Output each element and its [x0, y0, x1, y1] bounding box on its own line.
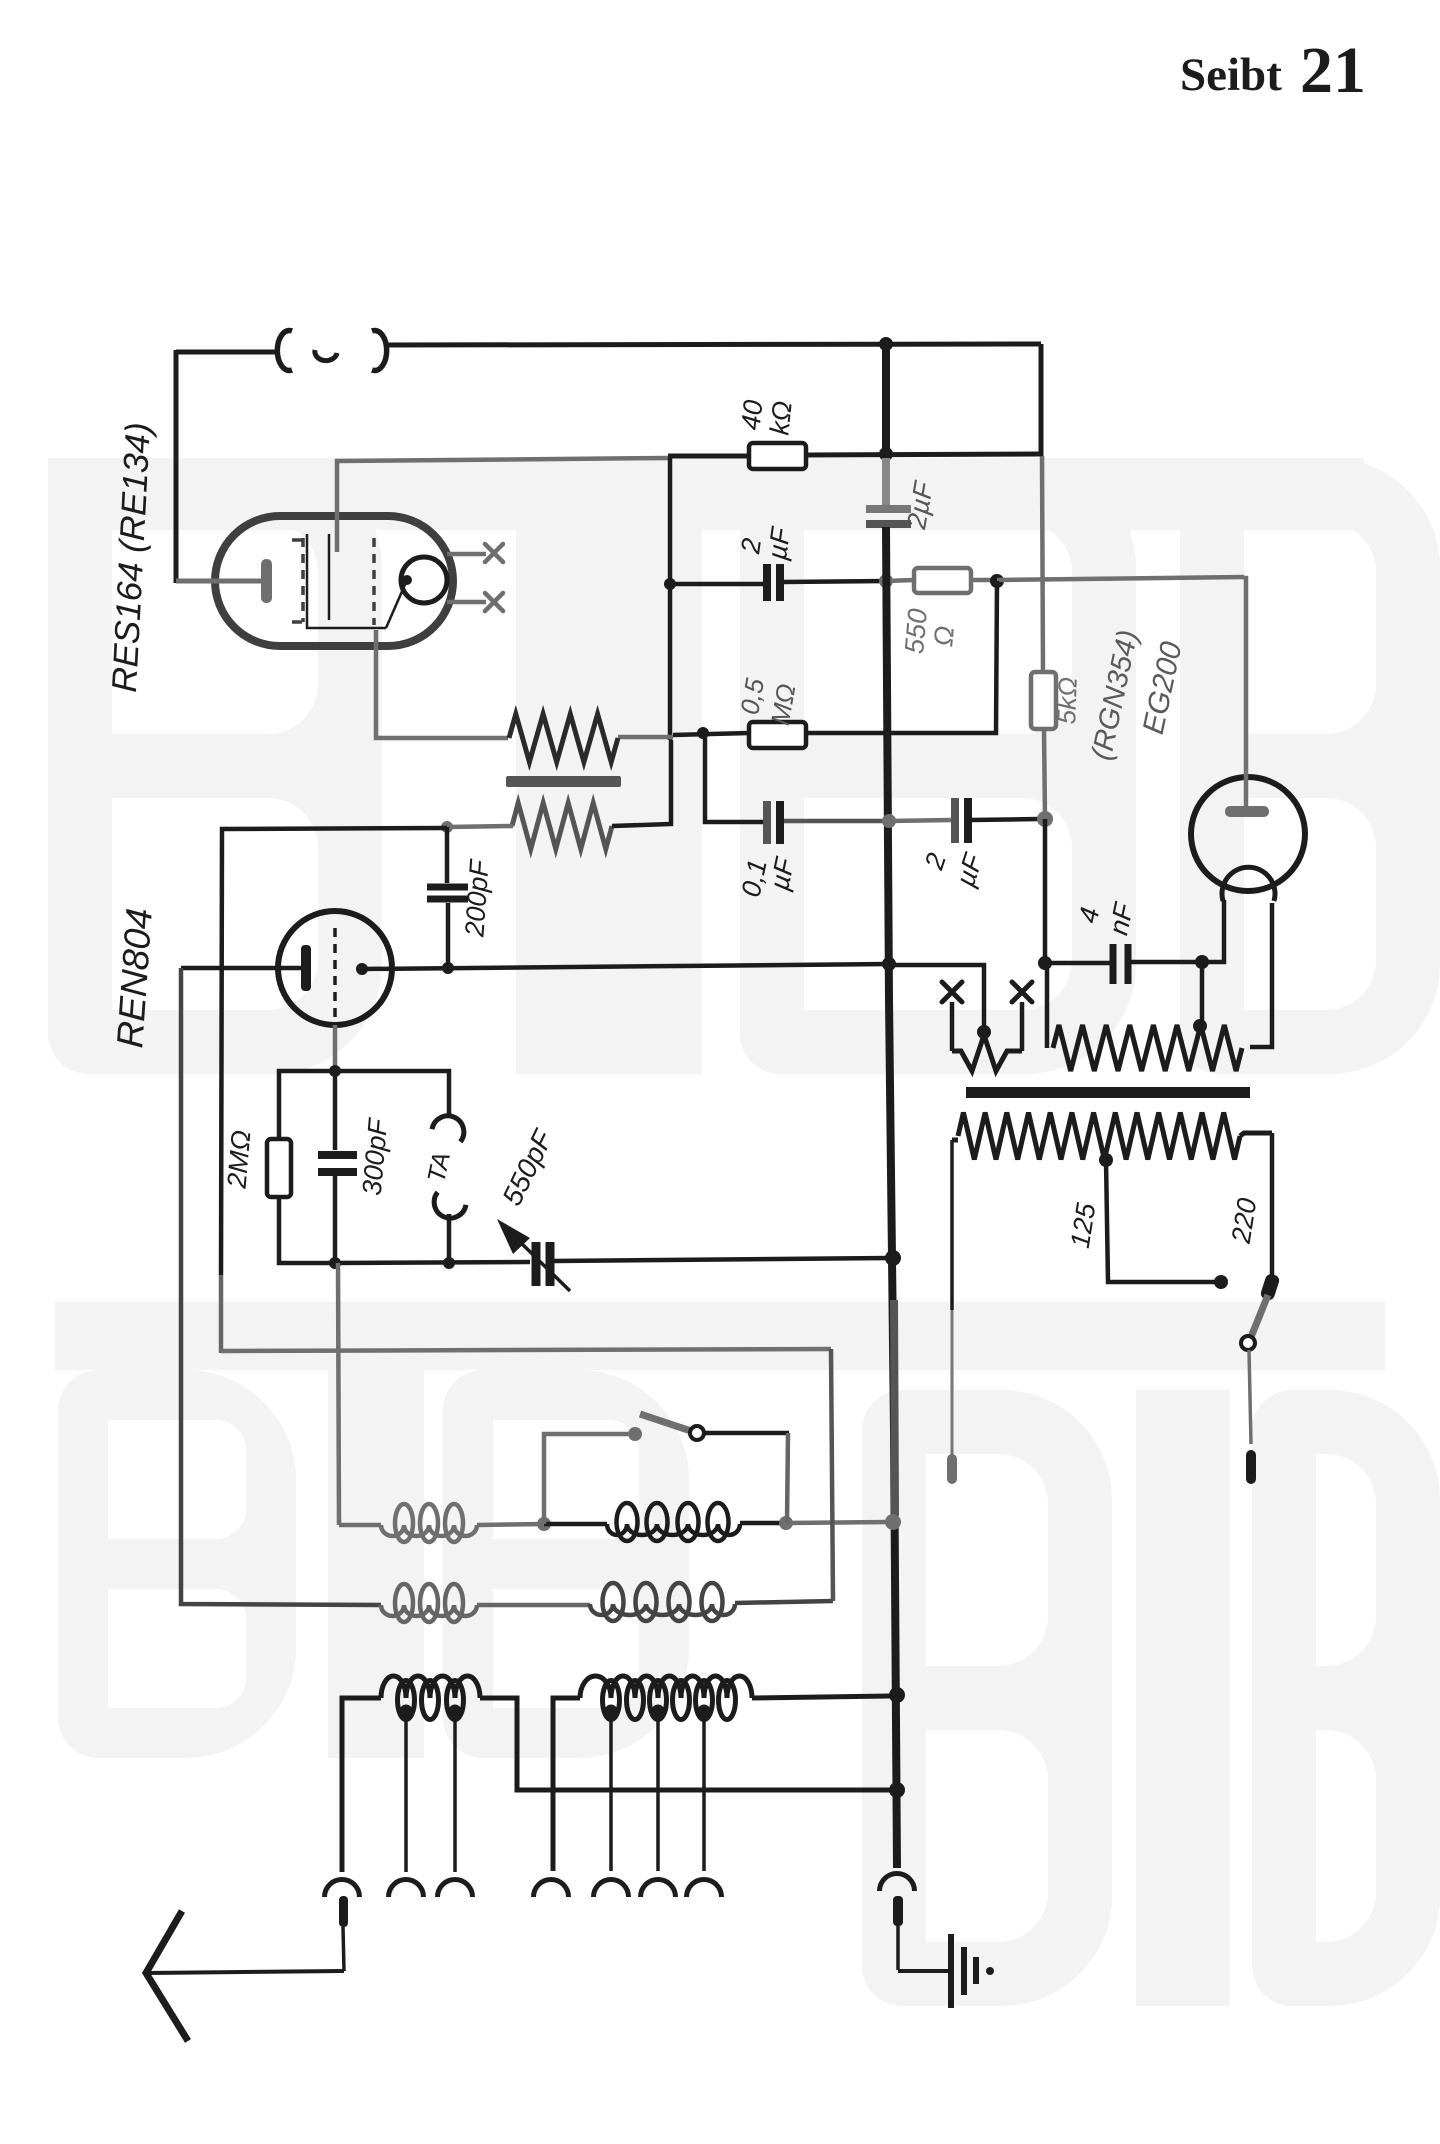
- wire L5 right to bus: [480, 1698, 893, 1790]
- wire vertical x670: [668, 458, 673, 740]
- wire grid network top: [279, 1071, 449, 1139]
- HT bus main segment: [886, 527, 897, 1868]
- wire to C8: [1045, 961, 1111, 966]
- junction R3 node: [697, 727, 709, 739]
- heater winding W2 tap: [1193, 1019, 1207, 1033]
- heater winding W1: [952, 1035, 1022, 1071]
- wire C3 to bus: [784, 819, 888, 824]
- wire antenna node left: [221, 828, 447, 1275]
- tube RGN354 envelope: [1191, 777, 1305, 891]
- REN804 plate wire: [181, 966, 301, 971]
- wire R2 out to rectifier plate: [997, 577, 1244, 580]
- speaker connector J1: [277, 331, 292, 371]
- wire C8 node to filament left leg: [1202, 900, 1224, 962]
- resistor R2 550ohm: [914, 568, 971, 593]
- mains plug pin left wire: [950, 1140, 954, 1310]
- junction L6 wire / bus: [889, 1687, 905, 1703]
- svg-text:Seibt: Seibt: [1180, 49, 1282, 101]
- wire C2 to bus: [783, 581, 886, 582]
- heater winding W2 rectifier: [1045, 963, 1050, 1048]
- junction switch feed: [537, 1517, 551, 1531]
- socket antenna: [325, 1880, 360, 1898]
- wire ground pin to earth: [898, 1969, 948, 1973]
- transformer T2 core: [966, 1087, 1250, 1098]
- socket tap2: [438, 1880, 473, 1898]
- coil L5 tap leads: [404, 1716, 408, 1872]
- pickup jack TA upper: [432, 1111, 469, 1142]
- capacitor C4 2uF: [951, 798, 959, 843]
- wire L1 to L2: [544, 1522, 607, 1527]
- wire C8 right: [1131, 960, 1202, 965]
- capacitor C2 2uF: [763, 564, 771, 601]
- capacitor C1 2uF bus: [866, 505, 911, 513]
- tube RES164 envelope: [215, 516, 453, 646]
- capacitor C7 550pF variable: [532, 1242, 541, 1286]
- RES164 heater terminal X upper: [485, 544, 503, 562]
- RGN354 plate: [1225, 806, 1269, 817]
- wire 220 drop: [1270, 1133, 1275, 1279]
- wire T1 sec right lead: [612, 740, 671, 826]
- wire R1 to bus: [806, 454, 1041, 455]
- svg-text:0,5: 0,5: [734, 676, 770, 717]
- RGN354 filament loop: [1222, 867, 1275, 901]
- mains switch S2 lever: [1251, 1295, 1268, 1337]
- resistor R3 0.5M: [749, 722, 806, 748]
- junction switch return: [779, 1516, 793, 1530]
- svg-text:kΩ: kΩ: [764, 400, 797, 437]
- ground socket: [880, 1874, 915, 1892]
- wire 40k row: [668, 454, 749, 459]
- wire REN804 cathode to bus: [362, 964, 889, 969]
- wire L3 to L4: [477, 1603, 590, 1608]
- wire bus to C4: [889, 820, 951, 821]
- mains plug pin left: [947, 1454, 957, 1484]
- mains plug pin right: [1249, 1350, 1251, 1444]
- wire L4 right: [735, 1601, 833, 1603]
- wire C8 node tap to heater winding: [1200, 962, 1205, 1026]
- wire antenna vertical lower: [219, 1275, 224, 1353]
- junction top wire / HT bus: [879, 337, 893, 351]
- capacitor C8 4nF: [1110, 944, 1117, 984]
- transformer T2 primary: [952, 1138, 958, 1143]
- wire L1 right to tap: [477, 1524, 544, 1525]
- coil L2: [607, 1524, 740, 1535]
- RGN354 plate lead: [1244, 578, 1246, 806]
- wire R2 loop down: [806, 581, 997, 733]
- junction cathode wire / bus: [882, 957, 896, 971]
- resistor R4 2M: [267, 1139, 291, 1197]
- REN804 grid dashed: [333, 928, 337, 1024]
- ground symbol: [948, 1934, 954, 2008]
- socket tap5: [641, 1880, 676, 1898]
- resistor R1 40k: [749, 443, 806, 469]
- wire R3 left: [673, 733, 749, 735]
- wire bus to R2: [886, 580, 914, 581]
- capacitor C6 300pF: [333, 1071, 338, 1150]
- junction C7 wire / bus: [885, 1250, 901, 1266]
- wire R4 bottom: [279, 1197, 335, 1263]
- transformer T1 secondary winding: [512, 803, 612, 849]
- RES164 grid g2 dashed: [372, 538, 376, 625]
- wire C4 node down: [1043, 819, 1048, 963]
- coil L4: [590, 1604, 735, 1615]
- REN804 cathode dot: [356, 963, 368, 975]
- coil L5: [381, 1676, 480, 1698]
- capacitor C3 0.1uF: [763, 801, 771, 844]
- coil L6 left lead: [553, 1698, 580, 1871]
- junction grid node: [329, 1065, 341, 1077]
- svg-text:Ω: Ω: [928, 625, 960, 648]
- transformer T1 core: [506, 776, 621, 787]
- junction x670 2uF tap: [664, 578, 676, 590]
- switch S1 feed: [544, 1434, 628, 1524]
- RES164 cathode box: [307, 534, 386, 628]
- RES164 filament loop: [401, 557, 447, 603]
- tube REN804 envelope: [278, 911, 392, 1025]
- heater winding W1 centre tap: [977, 1025, 991, 1039]
- wire L4 riser: [831, 1349, 833, 1601]
- RES164 plate: [261, 559, 272, 603]
- socket tap1: [389, 1880, 424, 1898]
- junction antenna node: [441, 821, 453, 833]
- resistor R5 5k: [1031, 672, 1056, 729]
- svg-text:21: 21: [1300, 34, 1366, 107]
- wire antenna pin to arrow: [147, 1971, 344, 1973]
- junction L5 wire / bus: [889, 1782, 905, 1798]
- RGN354 filament right leg: [1250, 903, 1272, 1047]
- pickup jack TA lower: [429, 1192, 466, 1223]
- socket tap3: [534, 1880, 569, 1898]
- socket tap4: [594, 1880, 629, 1898]
- switch S1 contact dot: [628, 1427, 642, 1441]
- wire T1 sec left lead: [447, 826, 513, 827]
- junction 4nF left node: [1038, 956, 1052, 970]
- RES164 heater terminal X lower: [485, 593, 503, 611]
- svg-text:2MΩ: 2MΩ: [221, 1129, 256, 1190]
- switch S1 out: [704, 1431, 789, 1436]
- wire right vertical x1041 down to 5k chain: [1039, 344, 1044, 456]
- REN804 plate: [301, 945, 311, 991]
- capacitor C5 200pF: [445, 827, 450, 883]
- junction R2 out: [971, 578, 997, 583]
- wire R5 to C4 node: [1044, 729, 1045, 819]
- coil L6 tap leads: [609, 1716, 613, 1871]
- junction C2 wire / bus: [879, 574, 893, 588]
- wire R3-node down to C3 row: [705, 738, 763, 822]
- svg-text:40: 40: [736, 399, 769, 432]
- junction C5 / cathode wire: [442, 962, 454, 974]
- coil L5 left lead: [342, 1698, 381, 1872]
- switch S1 pivot: [690, 1426, 704, 1440]
- junction C3 wire / bus: [882, 814, 896, 828]
- REN804 grid lead: [333, 1025, 338, 1071]
- wire screen-grid frame: [337, 458, 668, 552]
- wire L2 right: [740, 1521, 786, 1526]
- ground plug pin: [893, 1896, 903, 1926]
- coil L1 feed from grid circuit: [338, 1263, 339, 1525]
- wire row1 to bus: [786, 1522, 893, 1523]
- wire C4 to 5k node: [972, 819, 1038, 820]
- junction grid return left: [329, 1257, 341, 1269]
- coil L3 feed: [181, 968, 381, 1605]
- junction R1 wire / bus: [879, 447, 893, 461]
- svg-text:5kΩ: 5kΩ: [1051, 677, 1083, 725]
- mains switch S2 pivot: [1241, 1336, 1255, 1350]
- antenna arrow: [146, 1911, 188, 2041]
- socket tap6: [687, 1880, 722, 1898]
- wire grid return: [335, 1262, 530, 1263]
- coil L3: [381, 1605, 477, 1616]
- RES164 heater lead lower: [447, 600, 486, 605]
- wire x670 to C2: [670, 582, 764, 587]
- wire RES164 g2 to transformer: [376, 630, 508, 738]
- wire speaker to top-right corner: [386, 344, 1041, 345]
- heater winding W1 leads: [950, 1002, 955, 1051]
- junction C8 node: [1195, 955, 1209, 969]
- switch S1 lever: [640, 1414, 691, 1431]
- transformer T1 primary winding: [509, 714, 618, 762]
- HT bus upper segment: [882, 344, 890, 458]
- primary tap 125: [1099, 1153, 1113, 1167]
- RES164 heater lead upper: [447, 552, 486, 557]
- watermark BIB: [48, 458, 1440, 2006]
- svg-text:550: 550: [899, 607, 933, 655]
- wire L6 right to bus: [752, 1696, 893, 1698]
- svg-text:µF: µF: [762, 524, 797, 562]
- wire upper winding to x670: [618, 735, 673, 740]
- coil L1: [381, 1525, 477, 1536]
- mains switch S2 contact: [1259, 1272, 1280, 1301]
- wire top-left to speaker connector: [176, 350, 280, 355]
- junction row1 / bus: [885, 1514, 901, 1530]
- svg-text:200pF: 200pF: [459, 858, 494, 939]
- RES164 grid g1 dashed: [301, 538, 305, 622]
- junction 5k node: [1037, 811, 1053, 827]
- heater winding W1 terminals X: [942, 982, 962, 1002]
- wire antenna bus row: [221, 1349, 831, 1351]
- antenna plug pin: [339, 1896, 348, 1927]
- coil L6: [580, 1676, 752, 1698]
- wire C7 to bus: [554, 1258, 893, 1261]
